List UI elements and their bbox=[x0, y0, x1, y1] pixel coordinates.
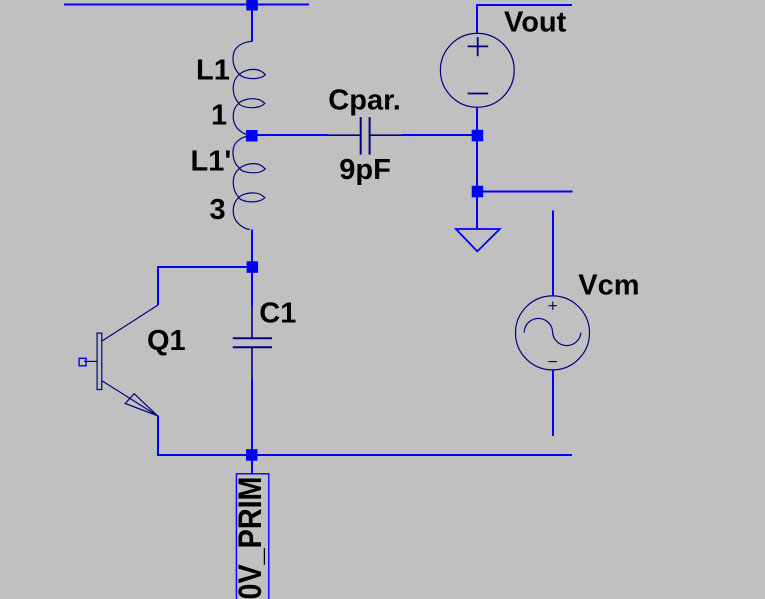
AC source Vcm bbox=[516, 296, 590, 370]
wire bottom horizontal bbox=[157, 454, 572, 456]
wire Vcm bottom bbox=[552, 370, 554, 436]
svg-text:Vcm: Vcm bbox=[578, 270, 639, 302]
wire L1' bottom to collector node bbox=[251, 229, 253, 262]
svg-text:L1': L1' bbox=[191, 146, 232, 178]
wire from top node down to L1 bbox=[251, 5, 253, 42]
wire collector node to Q1 bbox=[158, 267, 251, 305]
wire from Cpar mid node to right bbox=[252, 134, 328, 136]
wire Cpar right to Vout node bbox=[402, 134, 472, 136]
node N002 (L1/L1' junction) bbox=[246, 130, 258, 142]
node N005 (ground node) bbox=[472, 186, 484, 198]
svg-text:1: 1 bbox=[211, 100, 227, 132]
inductor L1' bbox=[233, 136, 265, 230]
wire Vout bottom to node bbox=[476, 107, 478, 130]
ground symbol bbox=[456, 229, 500, 251]
net flag box 0V_PRIM bbox=[236, 474, 268, 599]
wire stub to 0V_PRIM flag bbox=[251, 460, 253, 474]
wire C1 top bbox=[251, 272, 253, 306]
svg-text:3: 3 bbox=[210, 194, 226, 226]
svg-text:L1: L1 bbox=[196, 55, 230, 87]
wire N005 down to ground bbox=[476, 197, 478, 229]
node N004 (Vout bottom) bbox=[472, 130, 484, 142]
svg-text:Cpar.: Cpar. bbox=[328, 85, 401, 117]
transistor Q1 bbox=[84, 305, 158, 416]
base pin open square bbox=[79, 358, 86, 366]
wire N005 right bbox=[483, 191, 573, 193]
svg-text:Vout: Vout bbox=[504, 7, 567, 39]
inductor L1 bbox=[233, 41, 265, 135]
capacitor C1 bbox=[233, 306, 272, 379]
wire top horizontal bbox=[64, 4, 309, 6]
node N001 top bbox=[246, 0, 257, 11]
wire node N004 down to N005 bbox=[476, 141, 478, 187]
wire C1 bottom bbox=[251, 379, 253, 451]
node N006 (bottom) bbox=[246, 449, 258, 461]
voltage source Vout bbox=[440, 33, 514, 107]
wire Q1 emitter down bbox=[157, 416, 159, 455]
svg-text:0V_PRIM: 0V_PRIM bbox=[232, 477, 268, 599]
wire Vcm top bbox=[552, 210, 554, 296]
svg-text:9pF: 9pF bbox=[339, 154, 391, 186]
wire Vout top bbox=[477, 5, 572, 34]
node N003 (collector / C1 top) bbox=[247, 261, 259, 273]
svg-text:C1: C1 bbox=[259, 298, 296, 330]
capacitor Cpar. bbox=[328, 117, 402, 155]
svg-text:Q1: Q1 bbox=[147, 325, 186, 357]
